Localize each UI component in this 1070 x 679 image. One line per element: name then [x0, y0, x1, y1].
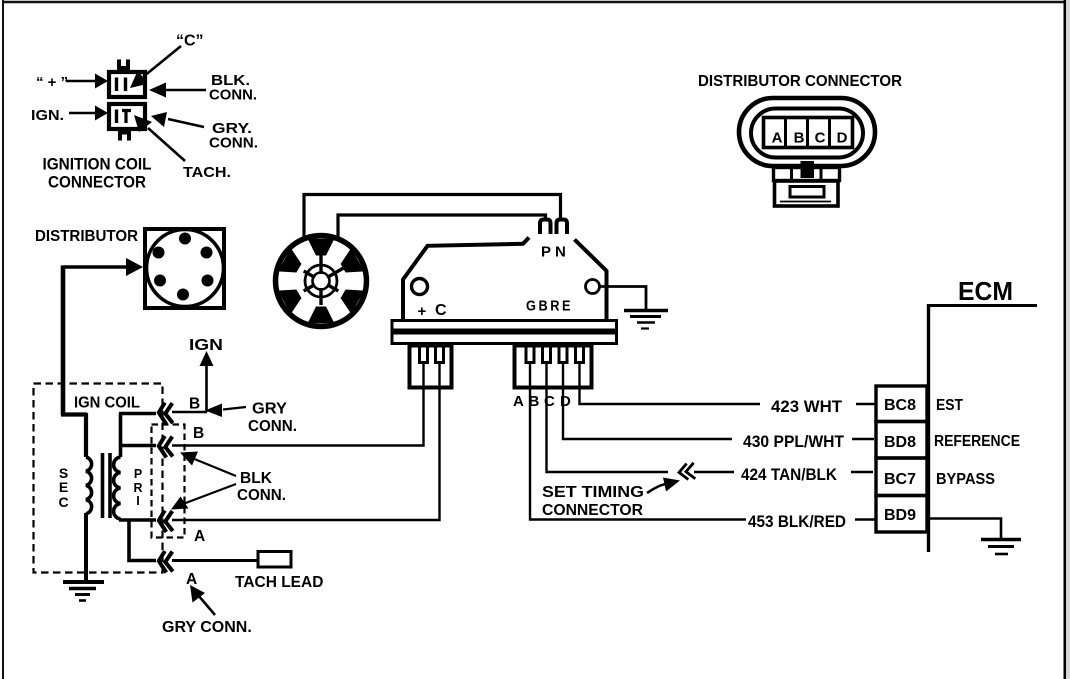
svg-text:EST: EST — [936, 397, 963, 414]
labels A B C D under module connector — [513, 393, 571, 410]
label PRI — [133, 467, 142, 508]
ECM pin box BD8 — [876, 422, 927, 459]
svg-text:CONNECTOR: CONNECTOR — [48, 173, 146, 192]
svg-text:TACH.: TACH. — [183, 164, 231, 181]
svg-text:BD9: BD9 — [884, 507, 916, 524]
svg-text:PN: PN — [541, 244, 570, 261]
screw hole left — [412, 279, 428, 295]
svg-text:IGN: IGN — [189, 337, 223, 354]
wire 423 WHT: module D to ECM BC8 — [580, 364, 761, 404]
svg-text:BYPASS: BYPASS — [936, 471, 995, 488]
label TACH. with arrow to lower connector — [134, 115, 231, 181]
svg-text:GRY CONN.: GRY CONN. — [162, 619, 252, 636]
svg-text:D: D — [837, 130, 848, 147]
label "C" with arrow to upper connector — [130, 33, 204, 89]
svg-text:GRY: GRY — [252, 401, 288, 418]
svg-text:453 BLK/RED: 453 BLK/RED — [748, 513, 846, 531]
svg-text:GBRE: GBRE — [526, 298, 573, 315]
svg-text:B: B — [794, 130, 805, 147]
svg-text:IGN.: IGN. — [31, 107, 64, 124]
svg-text:A: A — [186, 571, 197, 588]
coil primary bottom stub — [119, 520, 156, 561]
wire coil tower to distributor with arrow — [61, 258, 143, 457]
inner dashed box BLK CONN group — [152, 425, 185, 538]
coil primary winding PRI — [114, 457, 121, 519]
svg-text:ECM: ECM — [958, 276, 1013, 306]
svg-text:I: I — [136, 494, 139, 508]
set timing connector chevron — [678, 463, 695, 481]
svg-text:BC7: BC7 — [884, 471, 916, 488]
wire 430 PPL/WHT: module C to ECM BD8 — [563, 364, 732, 439]
module ground — [600, 287, 669, 329]
wire B gry to IGN junction — [172, 411, 207, 414]
svg-text:REFERENCE: REFERENCE — [934, 433, 1020, 450]
svg-text:C: C — [58, 494, 68, 510]
distributor connector (top right) — [698, 73, 902, 206]
wire B blk to module 2-pin connector — [172, 364, 424, 446]
ignition coil connector symbol — [109, 60, 145, 142]
label IGN. terminal with arrow — [31, 106, 108, 125]
svg-text:A: A — [194, 528, 205, 545]
module pin P — [540, 220, 551, 235]
wire A gry to tach lead — [172, 559, 258, 562]
svg-text:P: P — [134, 467, 142, 481]
svg-text:A: A — [772, 130, 783, 147]
svg-text:DISTRIBUTOR CONNECTOR: DISTRIBUTOR CONNECTOR — [698, 73, 902, 90]
svg-text:B: B — [189, 396, 200, 413]
wire 424 TAN/BLK: module B to ECM BC7 with set timing connector — [547, 364, 669, 472]
svg-text:DISTRIBUTOR: DISTRIBUTOR — [35, 228, 138, 245]
svg-text:424 TAN/BLK: 424 TAN/BLK — [741, 466, 837, 484]
svg-text:D: D — [560, 393, 571, 410]
wire 453 BLK/RED: module A to ECM BD9 — [530, 364, 746, 520]
module mounting plate — [392, 321, 617, 344]
ECM ground from BD9 — [927, 519, 1021, 555]
label "+" terminal with arrow — [36, 74, 108, 92]
chevron connector A (gry, bottom) — [159, 551, 173, 573]
svg-text:BC8: BC8 — [884, 397, 916, 414]
wire reluctor to module P pin (inner) — [338, 215, 546, 238]
ECM boundary lines — [927, 304, 1037, 307]
module 2-pin connector block — [410, 346, 452, 388]
svg-text:“ + ”: “ + ” — [36, 74, 68, 91]
coil primary top stub — [121, 414, 157, 458]
label GRY CONN top with arrow — [205, 401, 297, 436]
pole piece / reluctor wheel — [276, 236, 367, 327]
svg-text:R: R — [133, 481, 142, 495]
svg-text:C: C — [815, 130, 826, 147]
coil ground — [63, 582, 104, 601]
svg-text:+: + — [418, 303, 427, 320]
ECM pin box BC8 — [876, 386, 927, 422]
wire reluctor to module N pin (outer) — [304, 195, 561, 238]
svg-text:CONN.: CONN. — [248, 418, 297, 435]
svg-text:IGN COIL: IGN COIL — [74, 395, 140, 412]
chevron connector A (blk) — [159, 511, 173, 533]
svg-text:430 PPL/WHT: 430 PPL/WHT — [743, 433, 844, 451]
coil secondary to ground wire — [84, 513, 88, 582]
tach lead terminal — [258, 552, 291, 568]
label BLK CONN with two arrows — [171, 452, 286, 510]
svg-text:423 WHT: 423 WHT — [771, 398, 842, 416]
svg-text:SET TIMING: SET TIMING — [542, 484, 644, 501]
module pin N — [557, 220, 568, 235]
ECM pin box BD9 — [876, 496, 927, 533]
svg-text:E: E — [59, 479, 68, 495]
coil secondary winding SEC — [86, 457, 92, 514]
svg-text:C: C — [435, 302, 447, 319]
svg-text:BD8: BD8 — [884, 434, 916, 451]
label BLK. CONN. with arrow — [149, 72, 257, 104]
label IGNITION COIL CONNECTOR — [43, 155, 152, 192]
label GRY. CONN. with arrow — [151, 112, 258, 152]
wire A blk to module 2-pin connector — [172, 364, 440, 520]
label GRY CONN. bottom with arrow — [162, 585, 252, 636]
svg-text:BLK: BLK — [240, 470, 273, 487]
label SEC — [58, 465, 68, 510]
module 4-pin connector block — [515, 346, 592, 388]
svg-text:TACH LEAD: TACH LEAD — [235, 574, 323, 591]
IGN feed arrow — [189, 337, 223, 412]
ignition module U1 — [403, 220, 607, 322]
svg-text:B: B — [193, 425, 204, 442]
svg-text:IGNITION COIL: IGNITION COIL — [43, 155, 152, 174]
chevron connector B (blk) — [159, 436, 173, 458]
svg-text:CONNECTOR: CONNECTOR — [542, 502, 643, 519]
screw hole right — [586, 280, 600, 294]
ECM pin box BC7 — [876, 458, 927, 496]
set timing connector label and arrow — [542, 478, 680, 520]
coil core — [101, 453, 105, 518]
distributor cap — [145, 229, 224, 308]
svg-text:A: A — [513, 393, 524, 410]
svg-text:CONN.: CONN. — [209, 87, 257, 104]
chevron connector B (gry, top) — [159, 403, 173, 425]
svg-text:CONN.: CONN. — [237, 487, 286, 504]
svg-text:CONN.: CONN. — [209, 135, 258, 152]
ign coil dashed box — [34, 384, 163, 573]
